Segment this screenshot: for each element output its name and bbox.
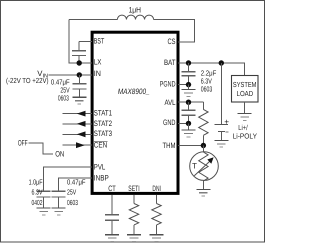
svg-text:DNI: DNI — [152, 184, 161, 193]
wire CEN with arrow — [63, 144, 92, 146]
wire system load to ground — [244, 102, 246, 114]
svg-text:(-22V TO +22V): (-22V TO +22V) — [6, 76, 49, 85]
wire BST stub — [79, 41, 92, 43]
ground for PGND — [182, 85, 196, 97]
svg-text:CT: CT — [108, 184, 116, 193]
svg-text:0.47μF: 0.47μF — [67, 177, 86, 186]
node THM junction dot — [201, 143, 206, 148]
svg-text:LOAD: LOAD — [237, 89, 254, 98]
wire PGND stub — [178, 84, 189, 86]
inductor L1 1uH — [117, 15, 153, 19]
resistor R_DNI on DNI pin — [152, 195, 161, 235]
svg-text:OFF: OFF — [18, 139, 28, 148]
capacitor C_PVL 1.0uF 6.3V 0402 — [37, 191, 51, 208]
capacitor C_CT on CT pin — [105, 195, 119, 235]
node GND junction dot — [186, 121, 191, 126]
wire PVL — [44, 167, 92, 191]
node IN junction dot — [77, 72, 82, 77]
svg-text:LX: LX — [94, 58, 102, 67]
wire top run left of inductor — [69, 19, 117, 21]
wire STAT2 with arrow — [63, 123, 92, 125]
svg-text:CEN: CEN — [94, 141, 108, 150]
wire STAT1 with arrow — [63, 113, 92, 115]
ground for C_INBP — [52, 208, 66, 215]
system load box — [232, 76, 259, 103]
node PGND junction dot — [186, 82, 191, 87]
svg-text:0603: 0603 — [201, 85, 213, 94]
thermistor RT (circle, zigzag, arrow, T) — [190, 152, 219, 190]
svg-text:STAT1: STAT1 — [94, 109, 112, 118]
wire VIN to IN pin — [49, 74, 93, 76]
wire THM — [178, 145, 203, 147]
IC U1 MAX8900 body — [92, 32, 178, 193]
svg-text:CS: CS — [168, 37, 176, 46]
svg-text:STAT2: STAT2 — [94, 119, 112, 128]
svg-text:6.3V: 6.3V — [32, 188, 43, 197]
svg-text:0402: 0402 — [32, 198, 43, 207]
wire battery lead — [220, 63, 222, 124]
node AVL junction dot — [186, 100, 191, 105]
wire AVL run to pullup resistor — [178, 101, 203, 103]
svg-text:ON: ON — [55, 149, 64, 158]
battery BT Li+/Li-POLY — [214, 117, 229, 140]
svg-text:1.0μF: 1.0μF — [29, 177, 43, 186]
wire BAT run to system load — [178, 63, 245, 76]
ground for C_CT — [105, 235, 119, 242]
node BAT battery junction dot — [219, 60, 224, 65]
svg-text:BAT: BAT — [164, 58, 176, 67]
node BAT cap junction dot — [186, 60, 191, 65]
svg-text:STAT3: STAT3 — [94, 129, 112, 138]
ground for battery — [214, 140, 228, 147]
wire OFF/ON step annotation — [29, 143, 53, 154]
svg-text:SYSTEM: SYSTEM — [233, 80, 257, 89]
wire LX to inductor (left riser and LX run) — [69, 20, 92, 64]
wire STAT3 with arrow — [63, 133, 92, 135]
svg-text:0603: 0603 — [58, 93, 69, 102]
resistor R_SETI on SETI pin — [129, 195, 138, 235]
wire INBP — [59, 178, 92, 191]
wire GND stub — [178, 122, 189, 124]
capacitor C_BAT 2.2uF 6.3V 0603 — [182, 63, 196, 85]
svg-text:PVL: PVL — [94, 163, 106, 172]
ground for R_SETI — [127, 235, 141, 242]
capacitor C_BST between BST and LX node — [72, 42, 86, 64]
svg-text:INBP: INBP — [94, 174, 109, 183]
svg-text:AVL: AVL — [165, 98, 177, 107]
svg-text:Li-POLY: Li-POLY — [233, 131, 258, 140]
svg-text:PGND: PGND — [160, 80, 176, 89]
ground for C_PVL — [37, 208, 51, 215]
wire top run right of inductor down to CS — [154, 20, 195, 43]
node LX junction dot — [77, 60, 82, 65]
svg-text:SETI: SETI — [128, 184, 139, 193]
capacitor C_IN 0.47uF 25V 0603 — [72, 75, 86, 97]
svg-text:THM: THM — [163, 141, 176, 150]
ground for C_IN — [72, 97, 86, 104]
svg-text:1μH: 1μH — [129, 6, 141, 15]
wire THM node to thermistor — [202, 146, 204, 153]
ground for R_DNI — [150, 235, 164, 242]
svg-text:25V: 25V — [67, 188, 76, 197]
ground for thermistor — [196, 189, 210, 196]
resistor R_THM pullup AVL to THM — [199, 102, 208, 145]
svg-text:MAX8900_: MAX8900_ — [118, 87, 150, 96]
capacitor C_AVL — [182, 102, 196, 123]
svg-text:T: T — [192, 162, 197, 171]
svg-text:0603: 0603 — [67, 198, 78, 207]
capacitor C_INBP 0.47uF 25V 0603 — [52, 191, 66, 208]
ground for GND pin — [182, 123, 196, 136]
ground for system load — [238, 114, 252, 121]
svg-text:BST: BST — [94, 37, 105, 46]
svg-text:GND: GND — [163, 118, 176, 127]
svg-text:IN: IN — [94, 69, 101, 78]
